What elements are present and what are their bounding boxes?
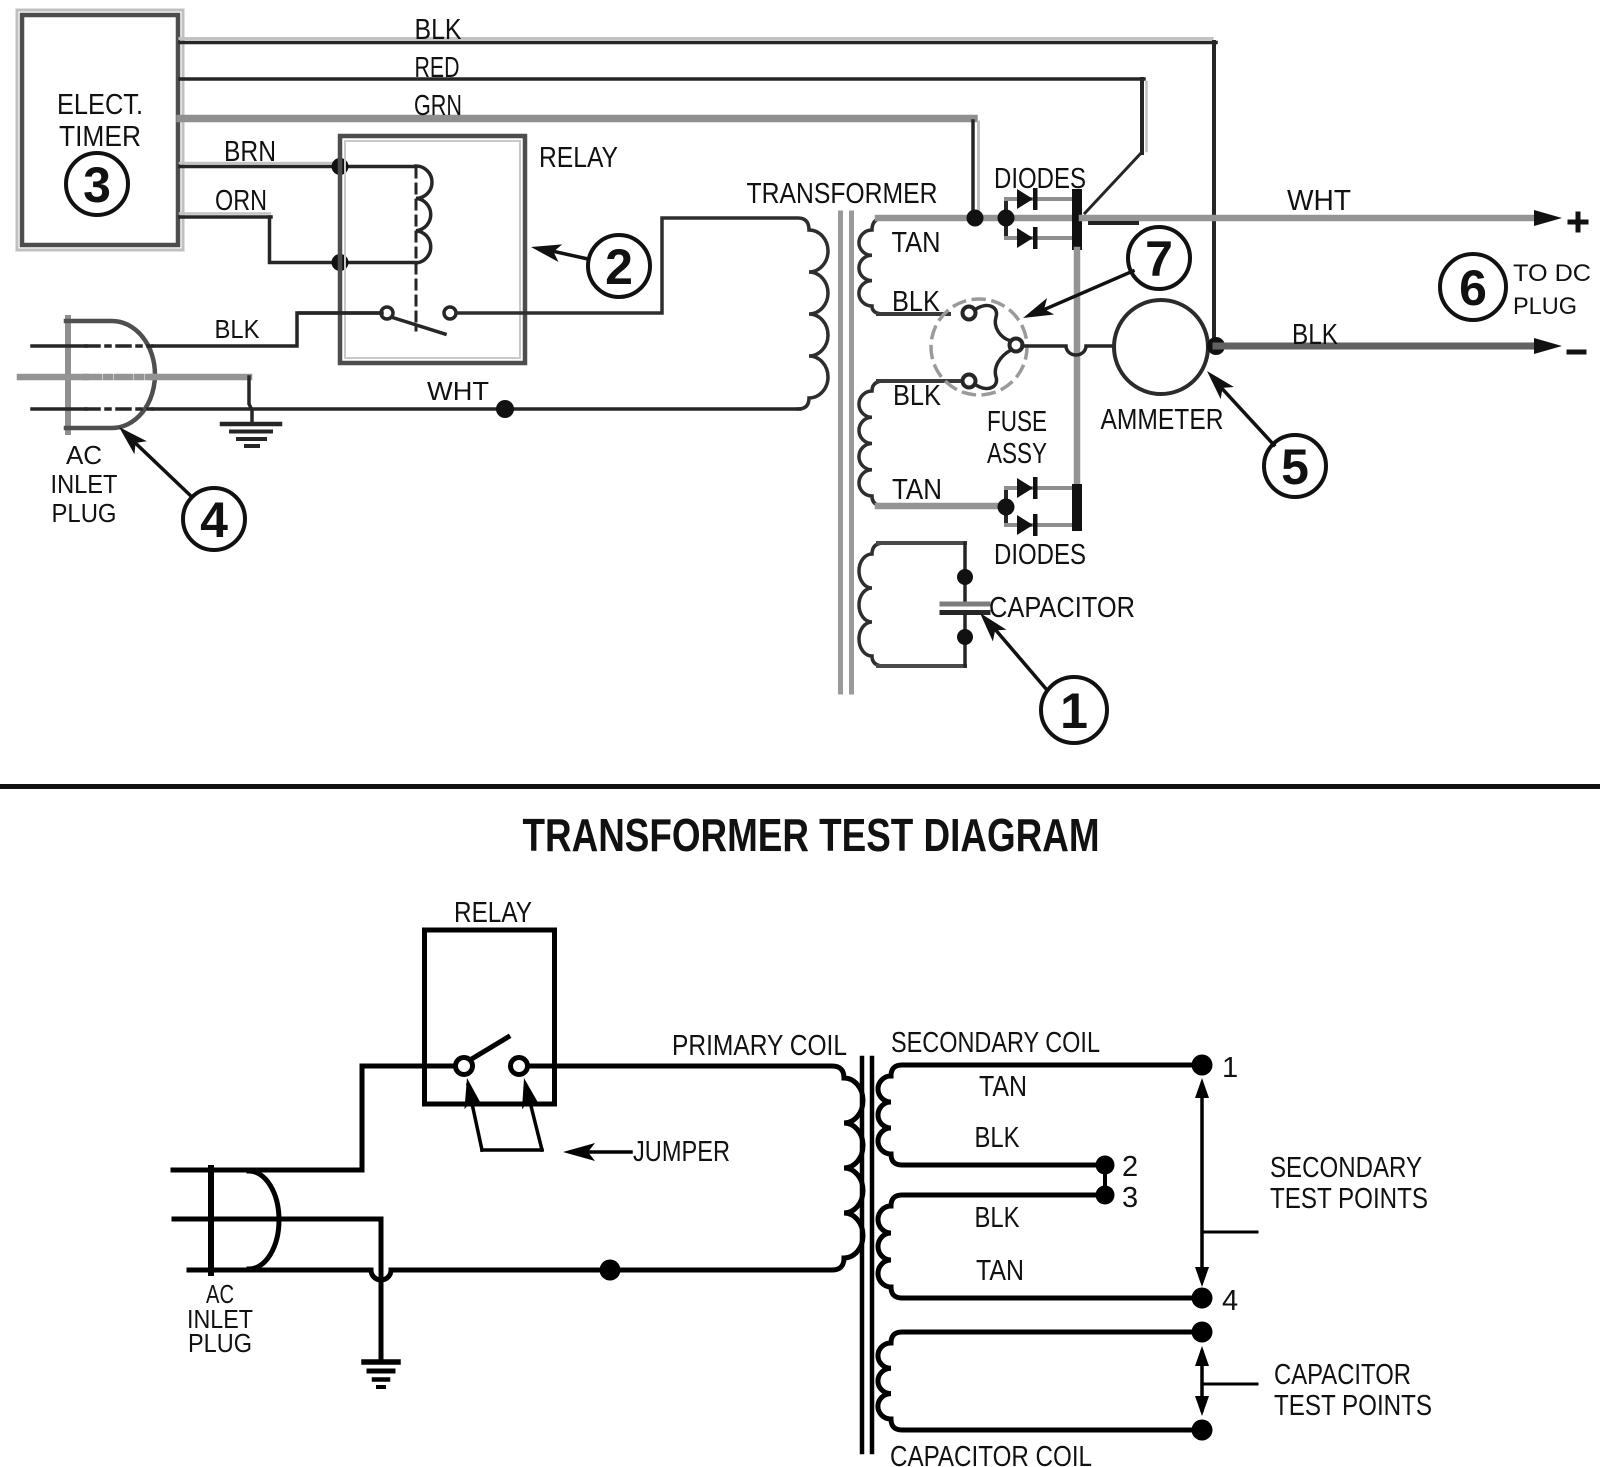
svg-text:TO DC: TO DC [1513,260,1591,287]
svg-text:AMMETER: AMMETER [1101,404,1224,436]
svg-text:DIODES: DIODES [994,539,1086,571]
svg-text:3: 3 [83,157,111,213]
svg-text:ORN: ORN [215,185,267,217]
svg-text:TIMER: TIMER [59,121,141,153]
svg-text:TAN: TAN [892,474,942,506]
svg-text:BLK: BLK [415,14,463,46]
svg-text:TAN: TAN [892,227,941,259]
svg-text:PLUG: PLUG [188,1328,252,1358]
svg-text:TEST POINTS: TEST POINTS [1274,1390,1432,1422]
svg-text:4: 4 [1222,1285,1238,1317]
svg-text:WHT: WHT [1287,185,1351,217]
svg-text:SECONDARY COIL: SECONDARY COIL [891,1027,1100,1059]
svg-text:5: 5 [1281,439,1309,495]
svg-text:WHT: WHT [427,376,489,406]
svg-text:CAPACITOR: CAPACITOR [1274,1359,1411,1391]
svg-text:JUMPER: JUMPER [633,1136,730,1168]
svg-text:3: 3 [1122,1182,1138,1214]
svg-text:6: 6 [1459,260,1487,316]
svg-text:BLK: BLK [975,1202,1021,1234]
svg-text:SECONDARY: SECONDARY [1270,1152,1422,1184]
svg-text:BLK: BLK [975,1122,1021,1154]
svg-text:GRN: GRN [414,90,462,122]
svg-text:PRIMARY COIL: PRIMARY COIL [672,1030,847,1062]
svg-text:TEST POINTS: TEST POINTS [1270,1183,1428,1215]
svg-text:DIODES: DIODES [994,163,1086,195]
svg-text:RED: RED [415,52,460,84]
svg-text:1: 1 [1222,1052,1238,1084]
svg-text:PLUG: PLUG [1513,293,1577,320]
svg-text:RELAY: RELAY [539,142,618,174]
svg-text:2: 2 [1122,1151,1138,1183]
svg-text:ASSY: ASSY [987,438,1047,470]
svg-text:BLK: BLK [892,286,941,318]
svg-text:BLK: BLK [1292,319,1339,351]
svg-text:INLET: INLET [51,469,118,499]
svg-text:AC: AC [66,440,102,470]
svg-text:CAPACITOR: CAPACITOR [989,592,1135,624]
svg-text:4: 4 [200,492,228,548]
svg-text:7: 7 [1145,231,1173,287]
svg-text:BLK: BLK [893,380,942,412]
svg-text:BRN: BRN [224,136,276,168]
svg-text:PLUG: PLUG [52,498,117,528]
svg-text:TRANSFORMER: TRANSFORMER [747,178,938,210]
svg-text:ELECT.: ELECT. [57,89,143,121]
svg-text:FUSE: FUSE [987,406,1047,438]
svg-text:2: 2 [605,239,633,295]
svg-text:TAN: TAN [976,1255,1024,1287]
svg-text:BLK: BLK [215,314,261,344]
svg-text:TRANSFORMER TEST DIAGRAM: TRANSFORMER TEST DIAGRAM [523,809,1100,861]
svg-text:1: 1 [1060,683,1088,739]
svg-text:CAPACITOR COIL: CAPACITOR COIL [890,1441,1092,1467]
svg-text:RELAY: RELAY [454,897,532,929]
svg-text:TAN: TAN [979,1071,1027,1103]
